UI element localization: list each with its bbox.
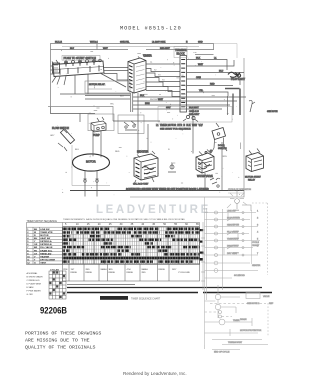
wire stubs from border <box>51 66 54 74</box>
svg-text:DRAIN SOL: DRAIN SOL <box>40 249 53 252</box>
svg-text:40: 40 <box>141 223 144 226</box>
svg-text:TIMER: TIMER <box>233 320 240 322</box>
svg-text:3RD: 3RD <box>109 269 114 271</box>
svg-text:RED: RED <box>115 151 120 153</box>
top border text fragments <box>55 42 203 50</box>
motor start relay (right margin) <box>246 149 264 172</box>
svg-text:N: N <box>168 149 170 151</box>
dashed enclosure right <box>252 203 268 336</box>
chart major columns <box>63 227 200 264</box>
svg-text:DRAIN SOL: DRAIN SOL <box>227 245 239 248</box>
svg-text:10: 10 <box>27 256 30 258</box>
svg-text:DRY BLOWER: DRY BLOWER <box>40 260 55 262</box>
svg-text:10: 10 <box>76 223 79 226</box>
underline rule 2 <box>67 292 272 294</box>
svg-text:HEATER: HEATER <box>137 150 148 154</box>
svg-text:PORTIONS OF THESE DRAWINGS: PORTIONS OF THESE DRAWINGS <box>25 331 101 337</box>
wire: pump to motor links <box>93 131 101 158</box>
svg-text:7: 7 <box>27 247 29 249</box>
schematic bottom caption row <box>70 188 244 191</box>
water valve solenoid <box>196 150 214 174</box>
svg-text:BRN: BRN <box>145 103 150 105</box>
svg-text:FILL VALVE: FILL VALVE <box>40 246 53 249</box>
svg-text:SWITCH: SWITCH <box>218 148 227 150</box>
scan noise dashes <box>65 52 228 184</box>
svg-text:HEATER: HEATER <box>40 255 49 258</box>
thick feed wires near pilot light <box>225 89 240 116</box>
svg-text:WASH: WASH <box>101 268 108 271</box>
svg-text:7: 7 <box>257 253 259 255</box>
svg-text:L1 120V 60HZ: L1 120V 60HZ <box>152 42 166 44</box>
svg-text:FILL VALVE: FILL VALVE <box>227 231 239 234</box>
svg-text:CAL ROD UNIT: CAL ROD UNIT <box>133 183 149 186</box>
svg-text:A NORMAL: A NORMAL <box>27 272 39 275</box>
svg-text:LINE SW: LINE SW <box>227 211 236 213</box>
svg-text:SCHEMATIC SHOWN WITH TIMER IN: SCHEMATIC SHOWN WITH TIMER IN OFF POSITI… <box>126 188 209 191</box>
svg-text:RINSE: RINSE <box>127 272 134 274</box>
svg-text:ORN: ORN <box>222 156 227 158</box>
terminal block strip <box>180 56 187 113</box>
chart outer border <box>27 223 200 265</box>
chart row-end marks <box>200 229 204 261</box>
underline rule 1 <box>67 287 262 289</box>
svg-text:TIMER ADV: TIMER ADV <box>227 238 239 241</box>
chart-side tick column <box>201 222 205 290</box>
lower text fragments <box>214 264 270 354</box>
lower chain circles <box>205 304 267 319</box>
svg-text:5: 5 <box>27 241 29 243</box>
svg-text:BLU: BLU <box>75 149 80 151</box>
svg-text:1ST: 1ST <box>71 269 76 271</box>
wire labels on right runs <box>196 58 224 92</box>
svg-text:BU: BU <box>34 238 38 240</box>
svg-text:T: T <box>34 260 36 262</box>
svg-text:60: 60 <box>185 223 188 226</box>
svg-text:4TH: 4TH <box>127 269 131 271</box>
label: door switch <box>218 145 227 150</box>
chart row separators <box>63 227 200 263</box>
svg-text:MODEL #8515-L20: MODEL #8515-L20 <box>120 26 182 32</box>
svg-text:PUSH TO START SWITCH: PUSH TO START SWITCH <box>64 56 97 60</box>
svg-text:GRD: GRD <box>198 42 203 44</box>
svg-text:RINSE: RINSE <box>109 272 116 274</box>
svg-text:BLK: BLK <box>140 95 145 97</box>
wire: top bus <box>51 44 214 55</box>
chart bottom cycle boxes <box>63 264 200 281</box>
vertical bus below timer <box>131 93 138 112</box>
extra wire label fragments <box>50 62 227 158</box>
wires: lower horizontal bus <box>51 94 247 122</box>
svg-text:Y: Y <box>34 241 36 243</box>
label: push to start switch <box>62 56 100 61</box>
ladder extra rungs <box>205 261 259 278</box>
svg-text:8: 8 <box>27 250 29 252</box>
svg-text:C RINSE HLD: C RINSE HLD <box>27 280 41 282</box>
water valve terminal marks <box>198 150 212 169</box>
right cycle-of-operation diagram <box>201 188 274 354</box>
pump <box>91 117 106 132</box>
svg-text:END OF CYCLE: END OF CYCLE <box>214 352 230 354</box>
svg-text:WHT-BLU: WHT-BLU <box>150 99 160 101</box>
wires: terminal block to right side <box>187 60 245 97</box>
chart increment numbers <box>65 223 199 226</box>
svg-text:20: 20 <box>98 223 101 226</box>
ladder middle rail <box>222 209 224 290</box>
svg-text:CYCLE OF OPERATION: CYCLE OF OPERATION <box>228 188 252 191</box>
svg-text:5: 5 <box>65 223 67 226</box>
label block right-mid <box>189 111 200 116</box>
mid text block <box>252 242 260 247</box>
svg-text:QUALITY OF THE ORIGINALS: QUALITY OF THE ORIGINALS <box>25 345 96 351</box>
ladder right rail <box>251 210 253 264</box>
junction box outline <box>158 107 232 123</box>
svg-text:MOTOR RELAY: MOTOR RELAY <box>89 83 105 86</box>
svg-text:L1 TIMER MOTOR HTR N BLK: L1 TIMER MOTOR HTR N BLK WHT VLV <box>156 125 203 127</box>
ladder bottom tail <box>205 345 241 350</box>
svg-text:TIMER: TIMER <box>143 54 152 58</box>
thermostat <box>168 163 176 172</box>
svg-text:PUMP: PUMP <box>93 135 100 137</box>
svg-text:VALVE: VALVE <box>263 295 270 298</box>
svg-text:15: 15 <box>87 223 90 226</box>
svg-text:BK: BK <box>34 229 38 231</box>
chart header rule <box>63 225 200 227</box>
svg-text:RELAY: RELAY <box>248 179 256 182</box>
svg-text:ORN-BLU: ORN-BLU <box>189 111 199 113</box>
svg-text:DOOR: DOOR <box>218 145 225 147</box>
svg-text:REF: REF <box>269 303 274 305</box>
legend mini grid <box>49 271 66 299</box>
svg-text:GRN-YEL: GRN-YEL <box>120 42 130 44</box>
svg-text:BR: BR <box>34 247 38 249</box>
svg-text:CHART: CHART <box>252 244 260 247</box>
schematic group <box>48 42 278 198</box>
svg-text:2: 2 <box>257 218 259 220</box>
label: motor start relay <box>245 176 261 182</box>
svg-text:E SANI: E SANI <box>27 286 34 289</box>
legend note lines <box>27 272 43 296</box>
svg-text:DRAIN: DRAIN <box>240 318 247 321</box>
svg-text:RINSE: RINSE <box>86 272 93 274</box>
svg-text:WHT: WHT <box>198 64 204 66</box>
push-to-start switch assembly <box>52 59 104 94</box>
svg-text:F PWR SAVER: F PWR SAVER <box>27 290 42 293</box>
wire: mid link <box>113 120 160 122</box>
svg-text:LINE SW: LINE SW <box>40 229 50 231</box>
svg-text:4: 4 <box>257 232 259 234</box>
svg-text:WHT-14: WHT-14 <box>90 42 98 44</box>
svg-text:RINSE: RINSE <box>71 272 78 274</box>
svg-text:BLOCK: BLOCK <box>177 53 186 56</box>
timer unit <box>128 55 146 93</box>
svg-text:TIMER MTR: TIMER MTR <box>40 232 53 234</box>
svg-text:45: 45 <box>152 223 155 226</box>
svg-text:CYCLE: CYCLE <box>252 242 260 244</box>
svg-text:TIMER SWITCH SEQUENCE: TIMER SWITCH SEQUENCE <box>27 221 58 223</box>
scan noise speckles <box>58 49 241 195</box>
chart fine hatch <box>63 227 200 264</box>
boxes underline <box>67 283 135 285</box>
svg-text:2ND: 2ND <box>142 272 147 274</box>
svg-text:CYCLE END: CYCLE END <box>178 272 190 274</box>
svg-text:MOTOR RUN: MOTOR RUN <box>227 218 240 220</box>
svg-text:BLU: BLU <box>219 71 224 73</box>
junction rosettes <box>183 115 198 121</box>
pump enclosure box <box>88 114 144 134</box>
chart interval bars <box>63 228 200 263</box>
svg-text:50: 50 <box>163 223 166 226</box>
ladder top lamp <box>227 191 251 211</box>
svg-text:25: 25 <box>109 223 112 226</box>
svg-text:D PLATE WRM: D PLATE WRM <box>27 283 42 286</box>
caption blob <box>100 296 161 300</box>
svg-text:HEATER ON: HEATER ON <box>227 224 239 227</box>
svg-text:B SHORT WASH: B SHORT WASH <box>27 276 43 279</box>
svg-text:RED-WHT: RED-WHT <box>189 114 200 116</box>
svg-text:OR: OR <box>34 244 38 246</box>
motor relay box <box>85 81 130 93</box>
svg-text:SOLENOID: SOLENOID <box>234 275 245 277</box>
svg-text:MOTOR START: MOTOR START <box>245 176 261 179</box>
svg-text:BLK: BLK <box>120 96 125 98</box>
svg-text:1: 1 <box>257 211 259 213</box>
wire: door switch drops <box>223 143 241 151</box>
svg-text:DRY: DRY <box>172 269 177 271</box>
svg-text:BLK: BLK <box>196 58 201 60</box>
ladder left rail <box>205 197 207 345</box>
svg-text:PILOT LIGHT: PILOT LIGHT <box>231 79 246 81</box>
svg-text:HEAT SW: HEAT SW <box>40 237 51 240</box>
svg-text:YEL: YEL <box>110 104 115 106</box>
svg-text:SEE NOTE 2: SEE NOTE 2 <box>247 303 260 305</box>
svg-text:92206B: 92206B <box>40 306 67 317</box>
svg-text:65: 65 <box>196 223 199 226</box>
svg-text:TIMER SEQUENCE CHART: TIMER SEQUENCE CHART <box>131 297 161 300</box>
flow switch <box>58 129 75 151</box>
svg-text:11: 11 <box>27 260 30 262</box>
svg-text:LEADVENTURE: LEADVENTURE <box>96 204 211 216</box>
svg-text:V: V <box>34 256 36 258</box>
door latch curl <box>249 100 255 112</box>
svg-text:Rendered by LeadVenture, Inc.: Rendered by LeadVenture, Inc. <box>123 371 187 376</box>
heater element <box>134 151 158 184</box>
wire: valve feed <box>193 109 205 190</box>
wire: heater drops <box>138 112 148 154</box>
svg-text:3: 3 <box>257 225 259 227</box>
svg-text:HEATER: HEATER <box>252 264 261 267</box>
svg-text:SEE CHART FOR SEQUENCE: SEE CHART FOR SEQUENCE <box>160 128 191 131</box>
svg-text:DETERG A: DETERG A <box>40 240 52 243</box>
lower-right fragments <box>233 303 274 322</box>
lower-right misc marks <box>210 178 220 187</box>
svg-text:W: W <box>34 232 37 234</box>
svg-text:ARE MISSING DUE TO THE: ARE MISSING DUE TO THE <box>25 338 90 344</box>
disclaimer text <box>25 331 101 351</box>
chart left label table <box>27 223 63 265</box>
svg-text:THERMOSTAT: THERMOSTAT <box>228 341 243 344</box>
svg-text:2: 2 <box>27 232 29 234</box>
ladder rungs <box>205 210 261 256</box>
svg-text:30: 30 <box>120 223 123 226</box>
svg-text:VENT: VENT <box>40 263 46 265</box>
svg-text:WASH: WASH <box>142 268 149 271</box>
svg-text:PK: PK <box>34 250 37 252</box>
svg-text:MOTOR PROTECTOR: MOTOR PROTECTOR <box>240 330 262 332</box>
wires: switch to timer <box>100 68 128 88</box>
motor <box>73 154 110 197</box>
door switch <box>211 123 227 190</box>
svg-text:G: G <box>34 263 36 265</box>
svg-text:GY: GY <box>34 253 38 255</box>
rung text fragments <box>227 211 259 256</box>
svg-text:SEE NOTE: SEE NOTE <box>267 111 278 113</box>
svg-text:CYCLES: CYCLES <box>50 269 59 271</box>
ladder lower section <box>205 285 269 345</box>
chart bar texture overlay <box>63 227 198 264</box>
svg-text:RED: RED <box>210 84 215 86</box>
svg-text:G OFF: G OFF <box>27 294 34 296</box>
svg-text:55: 55 <box>174 223 177 226</box>
svg-text:DRY HEAT: DRY HEAT <box>227 252 238 255</box>
svg-text:BLK-14: BLK-14 <box>55 42 63 44</box>
rung inter-links <box>224 213 238 256</box>
svg-text:DETERG B: DETERG B <box>40 244 52 246</box>
svg-text:PRE: PRE <box>63 269 68 271</box>
svg-text:2ND: 2ND <box>86 269 91 271</box>
svg-text:1: 1 <box>27 229 29 231</box>
wire staircase timer to terminal block <box>146 64 180 97</box>
svg-text:BLK-WHT: BLK-WHT <box>189 107 200 109</box>
svg-text:MOTOR: MOTOR <box>86 160 96 164</box>
svg-text:RINSE: RINSE <box>159 269 166 271</box>
svg-text:FLOW SWITCH: FLOW SWITCH <box>52 127 69 130</box>
schematic border frame <box>48 44 244 198</box>
svg-text:RINSE AID: RINSE AID <box>40 252 51 255</box>
timer sequence chart <box>27 218 204 299</box>
bus wire labels <box>140 95 200 109</box>
relay marks <box>124 121 137 130</box>
svg-text:35: 35 <box>131 223 134 226</box>
label: terminal block <box>174 47 188 58</box>
svg-text:GRY: GRY <box>50 135 55 137</box>
svg-text:TIMER INCREMENTS EACH DIVISIO: TIMER INCREMENTS EACH DIVISION EQUALS ON… <box>63 218 186 221</box>
svg-text:GRY: GRY <box>166 107 171 109</box>
pilot light cluster <box>228 72 241 77</box>
svg-text:ORN: ORN <box>196 77 201 79</box>
wires under relay box <box>85 96 130 100</box>
svg-text:MOTOR: MOTOR <box>40 235 49 237</box>
